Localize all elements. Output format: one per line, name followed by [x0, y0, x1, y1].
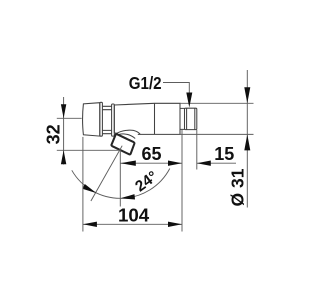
svg-text:65: 65 — [141, 144, 161, 164]
svg-text:104: 104 — [118, 205, 149, 225]
svg-text:24°: 24° — [132, 168, 161, 195]
svg-text:15: 15 — [214, 144, 234, 164]
dim 104 line — [83, 223, 182, 225]
G1/2 leader arrow — [186, 93, 192, 108]
G1/2 threaded fitting — [185, 108, 197, 129]
dia31 dim line — [246, 70, 248, 208]
arc arrowhead at vertical leg — [120, 194, 135, 199]
knob rim ring — [100, 102, 103, 136]
lock nut bar — [112, 104, 115, 136]
spout fillet curves — [115, 130, 140, 138]
dim 32 line — [63, 97, 65, 165]
dia31 extension line top — [180, 102, 254, 104]
dim 32 arrow down — [61, 104, 66, 118]
svg-text:32: 32 — [43, 124, 63, 144]
spout nozzle — [111, 134, 134, 154]
spout axis 24-deg line — [91, 146, 122, 201]
dim 65 line — [120, 162, 182, 164]
dim 65 arrow left — [120, 161, 136, 166]
spindle thread lines — [102, 106, 111, 133]
body cone/cylinder junction — [154, 103, 156, 134]
dim 15 line — [197, 162, 236, 164]
dim 104 arrow right — [168, 222, 182, 227]
dim 15 arrow — [197, 161, 211, 166]
dia31 arrow up — [244, 134, 250, 150]
dim 32 arrow up — [61, 150, 66, 164]
svg-text:Ø 31: Ø 31 — [228, 168, 248, 206]
dia31 extension line bottom — [180, 133, 254, 135]
dim 32 extension line bottom (outlet level) — [57, 149, 120, 151]
step neck to fitting — [180, 108, 185, 129]
valve body outline — [114, 103, 180, 134]
push-button knob cap — [83, 103, 100, 136]
dim 65 arrow right — [168, 161, 182, 166]
dia31 arrow down — [244, 87, 250, 103]
angle vertical centerline — [119, 150, 121, 207]
shared extension line at body end — [181, 130, 183, 232]
arc arrowhead at spout axis leg — [82, 184, 96, 193]
extension line at fitting tip — [196, 130, 198, 170]
svg-text:G1/2: G1/2 — [129, 73, 162, 93]
fitting chamfer lines — [187, 108, 195, 129]
dim 104 arrow left — [83, 222, 97, 227]
24-deg dimension arc — [72, 169, 170, 199]
G1/2 leader line — [163, 83, 189, 95]
dim 104 left extension line — [82, 137, 84, 232]
dim 32 extension line top (body axis) — [57, 117, 82, 119]
